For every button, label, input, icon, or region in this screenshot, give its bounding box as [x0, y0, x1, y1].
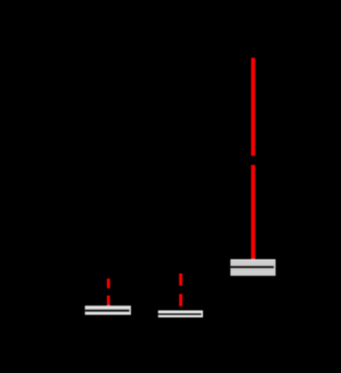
- tall dashed red pole: [251, 58, 255, 259]
- left dashed red pole: [107, 279, 110, 306]
- middle pedestal slab: [158, 310, 203, 317]
- middle dashed red pole: [179, 274, 182, 307]
- right pedestal slab: [230, 259, 275, 276]
- left pedestal slab: [85, 306, 131, 315]
